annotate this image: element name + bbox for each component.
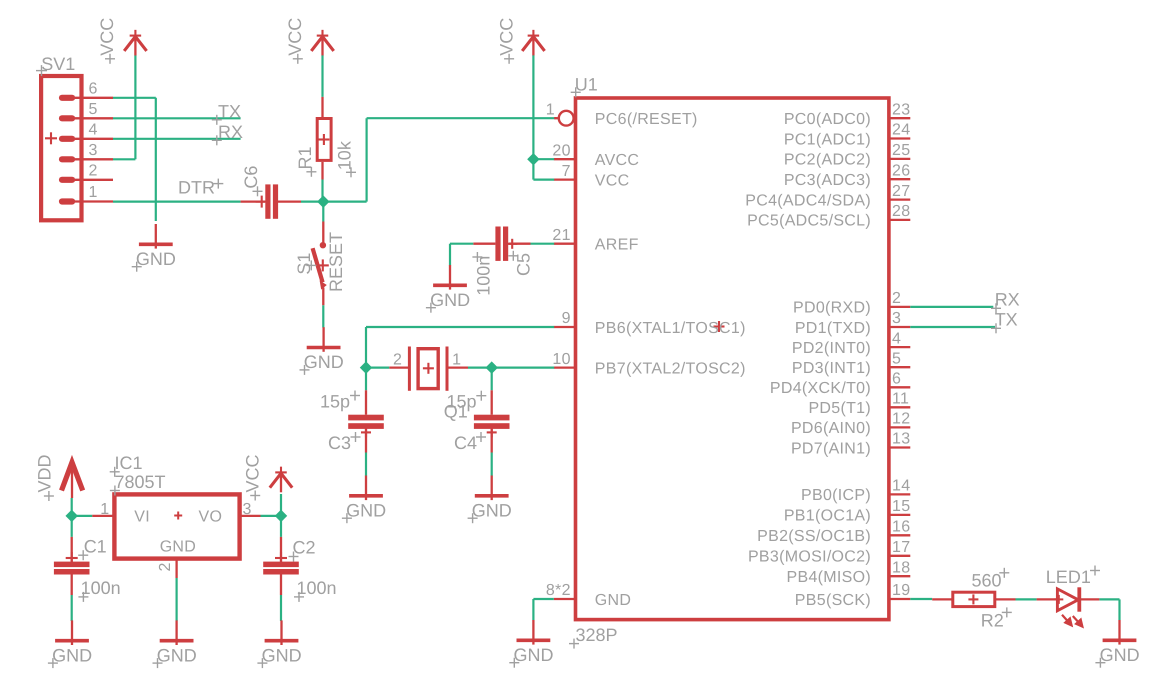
label 15p (C4) (447, 391, 487, 412)
svg-text:GND: GND (136, 249, 176, 269)
label C6 (241, 166, 263, 197)
svg-text:3: 3 (892, 310, 901, 327)
svg-text:2: 2 (157, 563, 174, 572)
wire junction right (323, 201, 366, 203)
svg-text:VO: VO (199, 508, 223, 525)
svg-text:100n: 100n (81, 578, 121, 598)
svg-text:6: 6 (892, 371, 901, 388)
wire R2 to LED1 (1016, 598, 1037, 600)
label VCC (above U1) (496, 18, 516, 64)
label S1 (294, 253, 317, 275)
svg-text:VCC: VCC (242, 454, 262, 492)
ic U1 pin 18 PB4(MISO) (787, 559, 911, 586)
label RX (212, 122, 243, 145)
svg-text:PD6(AIN0): PD6(AIN0) (791, 420, 871, 437)
wire junction down to C4 (491, 368, 493, 391)
ic U1 pin 4 PD2(INT0) (792, 330, 910, 357)
label 7805T (110, 472, 166, 496)
svg-text:PD4(XCK/T0): PD4(XCK/T0) (770, 380, 871, 397)
wire VCC arrow to junction (280, 494, 282, 516)
wire PD0 to RX (910, 306, 993, 308)
ic U1 pin 20 AVCC (552, 142, 639, 169)
junction VCC / C2 / IC1 pin3 (275, 510, 287, 522)
svg-text:1: 1 (100, 501, 109, 518)
svg-text:PC0(ADC0): PC0(ADC0) (784, 111, 871, 128)
supply symbol VDD (62, 462, 83, 498)
ic U1 pin 1 PC6(/RESET) (546, 101, 698, 128)
ic U1 pin 24 PC1(ADC1) (784, 122, 911, 149)
svg-text:1: 1 (452, 351, 461, 368)
svg-text:U1: U1 (575, 74, 598, 94)
switch S1 (313, 222, 329, 306)
svg-text:DTR: DTR (178, 177, 215, 197)
junction XTAL1 / C3 (360, 361, 372, 373)
ic U1 pin 21 AREF (552, 227, 638, 254)
ic U1 pin 25 PC2(ADC2) (784, 142, 911, 169)
wire net DTR from pin1 (113, 201, 241, 203)
led LED1 (1037, 587, 1100, 626)
ic U1 pin 16 PB2(SS/OC1B) (757, 519, 910, 546)
label TX (212, 101, 241, 124)
svg-text:GND: GND (160, 539, 196, 556)
regulator IC1 pin 3 VO (199, 501, 261, 525)
svg-text:10: 10 (552, 351, 570, 368)
ic U1 pin 15 PB1(OC1A) (784, 498, 911, 525)
svg-text:1: 1 (89, 184, 98, 201)
svg-text:PD3(INT1): PD3(INT1) (792, 360, 871, 377)
wire GND corner down (532, 599, 534, 620)
supply symbol VCC (above U1) (522, 30, 544, 56)
wire junction down to VCC pin row (532, 159, 534, 179)
ic U1 pin 19 PB5(SCK) (795, 582, 911, 609)
svg-text:GND: GND (595, 592, 631, 609)
label 100n (C5) (472, 252, 493, 296)
crystal Q1 pin number 1 (452, 351, 461, 368)
label U1 (571, 74, 598, 97)
svg-text:GND: GND (514, 645, 554, 665)
svg-text:100n: 100n (474, 256, 494, 296)
svg-text:VCC: VCC (285, 18, 305, 56)
svg-text:9: 9 (562, 310, 571, 327)
wire junction to U1 pin10 (492, 367, 555, 369)
wire PB6 corner down (365, 327, 367, 368)
label C4 (454, 432, 486, 453)
wire pin6 to GND stub (113, 97, 156, 99)
svg-text:PB2(SS/OC1B): PB2(SS/OC1B) (757, 528, 871, 545)
ic U1 pin 12 PD6(AIN0) (791, 411, 910, 438)
wire C5 to GND corner (450, 244, 473, 266)
wire PB6 net (366, 326, 554, 328)
svg-text:PD0(RXD): PD0(RXD) (793, 300, 871, 317)
svg-text:13: 13 (892, 431, 910, 448)
svg-text:LED1: LED1 (1046, 567, 1091, 587)
svg-text:GND: GND (157, 645, 197, 665)
wire junction to S1 (322, 202, 324, 222)
svg-text:4: 4 (89, 121, 98, 138)
svg-text:8*2: 8*2 (546, 582, 571, 599)
svg-text:PC3(ADC3): PC3(ADC3) (784, 172, 871, 189)
svg-text:19: 19 (892, 582, 910, 599)
capacitor C6 (241, 184, 301, 218)
wire to pin7 (533, 179, 554, 181)
svg-text:5: 5 (892, 350, 901, 367)
ground G7 below IC1 (153, 620, 197, 668)
svg-text:10k: 10k (334, 140, 354, 170)
svg-text:560: 560 (972, 571, 1002, 591)
svg-text:R1: R1 (295, 146, 315, 169)
svg-text:2: 2 (393, 351, 402, 368)
regulator IC1 label GND (160, 539, 196, 556)
wire net RX (113, 138, 241, 140)
ic U1 pin 23 PC0(ADC0) (784, 101, 911, 128)
svg-text:20: 20 (552, 142, 570, 159)
svg-text:11: 11 (892, 391, 909, 408)
regulator IC1 pin 2 GND (157, 559, 177, 578)
wire LED1 to GND corner (1099, 599, 1119, 620)
svg-text:12: 12 (892, 411, 910, 428)
ground G4 below C3 (342, 476, 386, 524)
svg-text:IC1: IC1 (115, 453, 143, 473)
label LED1 (1046, 566, 1100, 588)
wire PD1 to TX (910, 326, 995, 328)
svg-text:GND: GND (346, 500, 386, 520)
regulator IC1 pin 1 VI (92, 501, 150, 525)
svg-text:C4: C4 (454, 433, 477, 453)
wire IC1 pin3 to junction (261, 515, 282, 517)
svg-text:6: 6 (89, 80, 98, 97)
wire vertical VCC to pin3 (134, 55, 136, 159)
svg-text:VCC: VCC (97, 18, 117, 56)
svg-text:PD5(T1): PD5(T1) (808, 400, 871, 417)
svg-text:C3: C3 (328, 433, 351, 453)
svg-text:PC5(ADC5/SCL): PC5(ADC5/SCL) (747, 213, 871, 230)
wire junction down to C3 (365, 368, 367, 391)
ground G1 below SV1 (132, 224, 176, 272)
wire pin21 to C5 (531, 243, 555, 245)
svg-text:GND: GND (430, 290, 470, 310)
ic U1 pin 26 PC3(ADC3) (784, 162, 911, 189)
label RX (right) (991, 290, 1020, 314)
supply symbol VCC (above R1) (311, 30, 333, 56)
wire stub to G3 (449, 265, 451, 281)
junction VDD / C1 / IC1 pin1 (65, 510, 77, 522)
ic U1 pin 13 PD7(AIN1) (791, 431, 910, 458)
wire C3 to GND (365, 453, 367, 476)
svg-text:TX: TX (218, 101, 241, 121)
wire GND pin left (533, 598, 553, 600)
svg-text:PB4(MISO): PB4(MISO) (787, 569, 872, 586)
wire crystal pin1 to junction (468, 367, 492, 369)
connector SV1 pin 3 (59, 142, 113, 163)
wire junction to crystal pin2 (366, 367, 389, 369)
svg-text:GND: GND (304, 352, 344, 372)
ic U1 pin 17 PB3(MOSI/OC2) (748, 539, 910, 566)
svg-text:328P: 328P (576, 625, 618, 645)
supply symbol VCC (above C2) (270, 467, 292, 493)
svg-text:15: 15 (892, 498, 910, 515)
ic U1 pin 9 PB6(XTAL1/TOSC1) (554, 310, 746, 337)
label C1 (78, 537, 107, 561)
ic U1 pin 8*2 GND (546, 582, 631, 609)
svg-text:24: 24 (892, 122, 910, 139)
wire S1 to GND (322, 305, 324, 327)
svg-text:PB0(ICP): PB0(ICP) (801, 487, 871, 504)
wire junction to IC1 pin1 (72, 515, 93, 517)
ic U1 pin 6 PD4(XCK/T0) (770, 371, 910, 398)
svg-text:SV1: SV1 (41, 54, 75, 74)
svg-text:AVCC: AVCC (595, 152, 639, 169)
capacitor C3 (348, 390, 384, 452)
svg-text:PB3(MOSI/OC2): PB3(MOSI/OC2) (748, 549, 871, 566)
capacitor C4 (474, 390, 510, 452)
svg-text:14: 14 (892, 478, 910, 495)
svg-text:PB5(SCK): PB5(SCK) (795, 592, 871, 609)
label VCC (above R1) (285, 18, 305, 64)
svg-text:C2: C2 (293, 537, 316, 557)
svg-text:3: 3 (243, 501, 252, 518)
svg-text:PB6(XTAL1/TOSC1): PB6(XTAL1/TOSC1) (595, 320, 746, 337)
svg-text:GND: GND (262, 645, 302, 665)
svg-text:2: 2 (892, 290, 901, 307)
wire C2 to GND (280, 595, 282, 621)
ground G2 below S1 (300, 327, 344, 375)
svg-text:VCC: VCC (496, 18, 516, 56)
wire IC1 pin2 down (176, 578, 178, 621)
resistor R2 (932, 592, 1015, 606)
svg-text:RX: RX (995, 290, 1020, 310)
label C5 (508, 251, 533, 276)
connector SV1 pin 6 (59, 80, 113, 101)
svg-text:TX: TX (995, 310, 1018, 330)
svg-text:1: 1 (546, 101, 555, 118)
label R1 (295, 146, 316, 176)
junction XTAL2 / C4 (485, 361, 497, 373)
connector SV1 pin 5 (59, 101, 113, 122)
svg-text:VI: VI (134, 508, 150, 525)
label R2 (981, 607, 1012, 630)
wire junction down to C2 (280, 516, 282, 537)
label Q1 (444, 402, 468, 422)
capacitor C5 (473, 227, 530, 261)
ground G5 below C4 (468, 476, 512, 524)
label 10k (334, 140, 356, 177)
svg-text:C6: C6 (241, 166, 261, 189)
label 560 (972, 568, 1010, 591)
svg-text:18: 18 (892, 559, 910, 576)
wire junction down to C1 (71, 516, 73, 537)
svg-text:7805T: 7805T (115, 472, 166, 492)
connector SV1 pin 1 (59, 184, 113, 205)
label RESET (326, 232, 346, 292)
label SV1 (36, 54, 75, 76)
svg-text:2: 2 (89, 162, 98, 179)
wire to U1 pin1 (367, 117, 557, 119)
svg-text:PC6(/RESET): PC6(/RESET) (595, 111, 698, 128)
svg-text:PD7(AIN1): PD7(AIN1) (791, 440, 871, 457)
label VDD (35, 454, 55, 501)
svg-text:4: 4 (892, 330, 901, 347)
wire VCC to R1 (321, 55, 323, 97)
wire R1 to junction (321, 180, 323, 202)
wire vertical up to pin1 row (366, 118, 368, 201)
connector SV1 pin 4 (59, 121, 113, 142)
ic U1 pin 2 PD0(RXD) (793, 290, 910, 317)
svg-text:3: 3 (89, 142, 98, 159)
ic U1 pin 5 PD3(INT1) (792, 350, 910, 377)
wire pin3 to VCC stub (113, 158, 135, 160)
svg-text:RX: RX (218, 122, 243, 142)
ic U1 pin 14 PB0(ICP) (801, 478, 910, 505)
ground G6 below C1 (48, 620, 92, 668)
origin cross U1 (714, 321, 725, 332)
wire pin19 to R2 (910, 598, 932, 600)
label DTR (178, 177, 223, 197)
svg-text:PB7(XTAL2/TOSC2): PB7(XTAL2/TOSC2) (595, 360, 746, 377)
wire net TX (113, 117, 241, 119)
ic U1 pin 3 PD1(TXD) (795, 310, 910, 337)
ground G9 below U1 (509, 620, 553, 668)
label C3 (328, 432, 361, 453)
ground G8 below C2 (257, 620, 301, 668)
svg-text:GND: GND (1100, 645, 1140, 665)
svg-text:PB1(OC1A): PB1(OC1A) (784, 508, 871, 525)
svg-text:15p: 15p (447, 391, 477, 411)
svg-text:27: 27 (892, 183, 910, 200)
ic U1 pin 28 PC5(ADC5/SCL) (747, 203, 910, 230)
resistor R1 (317, 97, 331, 180)
svg-text:PD2(INT0): PD2(INT0) (792, 340, 871, 357)
wire C6 to junction (301, 201, 323, 203)
svg-text:21: 21 (552, 227, 570, 244)
svg-text:VDD: VDD (35, 454, 55, 492)
supply symbol VCC (near SV1) (124, 30, 146, 56)
wire C1 to GND (71, 595, 73, 621)
svg-text:AREF: AREF (595, 237, 639, 254)
svg-text:15p: 15p (320, 391, 350, 411)
junction reset net (317, 195, 329, 207)
svg-text:C1: C1 (84, 537, 107, 557)
ground G10 below LED1 (1095, 620, 1139, 668)
wire vertical pin6 down to GND (155, 98, 157, 221)
wire junction to pin20 (533, 158, 554, 160)
wire C4 to GND (491, 453, 493, 476)
capacitor C1 (54, 537, 90, 595)
svg-text:17: 17 (892, 539, 910, 556)
label C2 (289, 537, 316, 561)
label TX (right) (991, 310, 1018, 334)
ic U1 pin 7 VCC (554, 163, 630, 190)
svg-text:5: 5 (89, 101, 98, 118)
label 100n (C1) (78, 578, 120, 602)
svg-text:25: 25 (892, 142, 910, 159)
ic U1 pin 10 PB7(XTAL2/TOSC2) (552, 351, 745, 378)
svg-text:PC1(ADC1): PC1(ADC1) (784, 131, 871, 148)
crystal Q1 (389, 347, 468, 391)
svg-text:PC2(ADC2): PC2(ADC2) (784, 152, 871, 169)
connector SV1 body (41, 76, 81, 220)
label IC1 (110, 453, 143, 477)
svg-text:26: 26 (892, 162, 910, 179)
label 328P (569, 625, 618, 649)
ground G3 below C5 (426, 265, 470, 313)
junction AVCC (527, 153, 539, 165)
capacitor C2 (263, 537, 299, 595)
label VCC (above C2) (242, 454, 262, 500)
connector SV1 pin 2 (59, 162, 113, 183)
svg-text:GND: GND (472, 500, 512, 520)
label 100n (C2) (294, 578, 337, 602)
svg-text:100n: 100n (297, 578, 337, 598)
ic U1 ATmega328P body (576, 98, 889, 620)
svg-text:7: 7 (562, 163, 571, 180)
ic U1 pin 11 PD5(T1) (808, 391, 910, 418)
svg-text:RESET: RESET (326, 232, 346, 292)
regulator IC1 body (114, 494, 239, 558)
label 15p (C3) (320, 391, 360, 412)
wire VDD to junction (71, 498, 73, 516)
svg-text:VCC: VCC (595, 172, 630, 189)
svg-text:23: 23 (892, 101, 910, 118)
svg-text:PD1(TXD): PD1(TXD) (795, 320, 871, 337)
svg-text:GND: GND (52, 645, 92, 665)
svg-text:16: 16 (892, 519, 910, 536)
crystal Q1 pin number 2 (393, 351, 402, 368)
ic U1 pin 27 PC4(ADC4/SDA) (745, 183, 910, 210)
svg-text:28: 28 (892, 203, 910, 220)
label VCC (near SV1) (97, 18, 117, 64)
wire VCC down to AVCC junction (532, 55, 534, 159)
svg-text:PC4(ADC4/SDA): PC4(ADC4/SDA) (745, 192, 871, 209)
svg-text:R2: R2 (981, 610, 1004, 630)
